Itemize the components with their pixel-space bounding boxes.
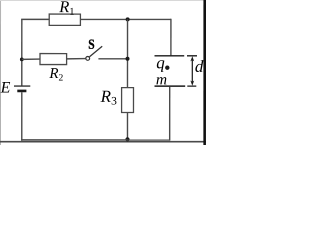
wire: left vertical (battery to top-left corner) [21,19,23,85]
svg-text:m: m [156,71,167,88]
frame bottom border [0,141,206,143]
dimension double arrow d [190,56,194,86]
resistor R3 [122,88,134,113]
resistor R1 [49,14,80,25]
battery E short plate (-) [17,90,26,93]
dimension tick bottom [187,85,196,87]
wire: capacitor bottom plate down to bottom rail [169,87,171,141]
wire: top rail right of R1 [80,18,171,20]
svg-text:R1: R1 [58,0,74,18]
node: junction dot top (127.6,19.4) [126,17,130,21]
wire: switch to middle vertical [98,58,127,60]
wire: R2 box to switch [67,58,86,60]
charged particle dot [165,66,169,70]
node: junction dot on left wire for R2 branch [20,57,24,61]
svg-text:E: E [0,79,11,96]
svg-text:R3: R3 [100,87,117,108]
node: junction dot middle (127.5,58.8) [126,57,130,61]
capacitor bottom plate [154,85,185,87]
frame top border [0,0,206,2]
wire: bottom rail [21,139,170,141]
svg-text:d: d [195,57,204,76]
wire: top rail corner down to capacitor top plate [170,19,172,56]
svg-text:q: q [156,53,165,72]
resistor R2 [40,54,67,65]
capacitor top plate [155,55,185,57]
dimension tick top [187,55,197,57]
wire: battery to bottom rail [20,92,23,140]
frame right border [203,0,206,145]
svg-text:R2: R2 [48,66,63,84]
wire: top rail [21,18,49,20]
wire: middle vertical upper segment [126,19,128,87]
wire: R2 branch left [22,58,40,60]
wire: R3 bottom to bottom rail [126,113,128,140]
frame left border [0,0,2,145]
switch S lever [90,46,103,56]
switch S pivot circle [86,56,90,60]
svg-text:S: S [88,38,95,53]
node: junction dot bottom (127.5,139.4) [125,137,129,141]
battery E long plate (+) [14,85,30,87]
